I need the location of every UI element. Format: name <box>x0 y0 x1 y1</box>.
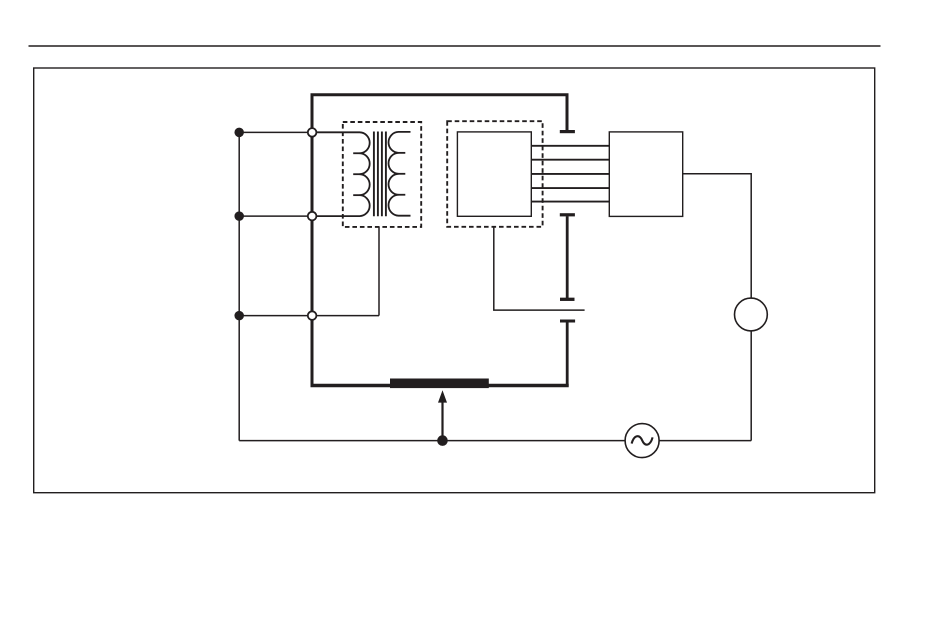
terminal 2 <box>308 212 317 221</box>
meter M1 <box>735 298 768 331</box>
terminal 3 <box>308 311 317 320</box>
AC source V1 <box>625 424 659 458</box>
pin line 2 <box>531 159 609 161</box>
potentiometer R1 wiper arrow <box>441 401 443 438</box>
transformer T1 primary winding <box>312 132 370 216</box>
capacitor C2 bottom plate <box>560 320 575 323</box>
capacitor C2 top plate <box>560 298 575 301</box>
pin line 5 <box>531 201 609 203</box>
wire: row 1 node to terminal <box>239 131 312 133</box>
capacitor C1 top plate <box>560 130 575 133</box>
transformer T1 shield (dashed box) <box>343 122 421 227</box>
potentiometer R1 body <box>390 379 489 389</box>
node B <box>234 211 244 221</box>
transformer T1 secondary winding <box>389 132 411 216</box>
capacitor C1 bottom plate <box>560 213 575 216</box>
amplifier block U2 <box>609 132 682 217</box>
wire: thick bus (top feed, left bus, drop to C1 top plate) <box>312 95 567 386</box>
node A <box>234 128 244 138</box>
wire: thick bottom bus <box>311 384 569 388</box>
tube block U1 <box>457 132 531 216</box>
pin line 1 <box>531 145 609 147</box>
wire: left node column vertical <box>238 132 240 440</box>
pin line 3 <box>531 173 609 175</box>
terminal 1 <box>308 128 317 137</box>
tube shield (dashed box) <box>447 121 542 227</box>
wire: C1 bottom plate to C2 top plate <box>566 216 569 300</box>
wire: right vertical through meter <box>683 174 752 441</box>
wire: bottom horizontal to AC source and right <box>239 440 751 442</box>
node C <box>234 311 244 321</box>
transformer T1 core <box>373 132 375 217</box>
node: wiper junction <box>437 435 448 446</box>
pin line 4 <box>531 187 609 189</box>
wire: C2 bottom plate to bottom bus <box>566 322 569 387</box>
capacitor C2 middle electrode and lead from tube box <box>494 227 585 311</box>
wire: row 3 node to transformer return <box>239 315 379 317</box>
wire: row 2 node to terminal <box>239 215 312 217</box>
wire: transformer shield return drop <box>378 227 380 316</box>
